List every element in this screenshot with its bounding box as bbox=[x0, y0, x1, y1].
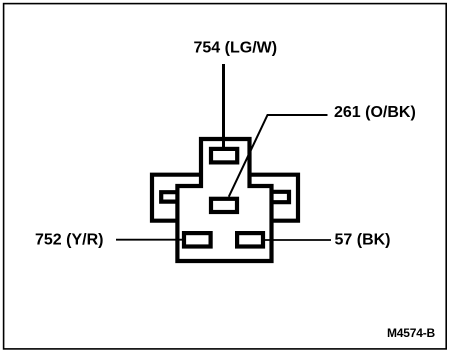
pin 752 (bottom-left cavity) bbox=[184, 233, 211, 246]
wire leader 754 bbox=[222, 64, 225, 147]
right wing notch bbox=[272, 192, 290, 202]
left wing notch bbox=[161, 192, 177, 201]
svg-text:M4574-B: M4574-B bbox=[387, 326, 435, 340]
svg-text:752 (Y/R): 752 (Y/R) bbox=[35, 231, 103, 248]
wire leader 261 bbox=[229, 115, 328, 197]
connector left wing bbox=[152, 175, 201, 221]
connector body outline bbox=[177, 139, 271, 261]
pin 754 (top cavity) bbox=[211, 149, 237, 163]
connector right wing bbox=[250, 175, 299, 221]
wire leader 57 bbox=[265, 239, 331, 241]
wire leader 752 bbox=[116, 239, 182, 241]
svg-text:261 (O/BK): 261 (O/BK) bbox=[334, 104, 416, 121]
pin 261 (middle cavity) bbox=[211, 199, 237, 212]
svg-text:57 (BK): 57 (BK) bbox=[335, 231, 391, 248]
pin 57 (bottom-right cavity) bbox=[237, 233, 263, 246]
svg-text:754 (LG/W): 754 (LG/W) bbox=[194, 39, 278, 56]
